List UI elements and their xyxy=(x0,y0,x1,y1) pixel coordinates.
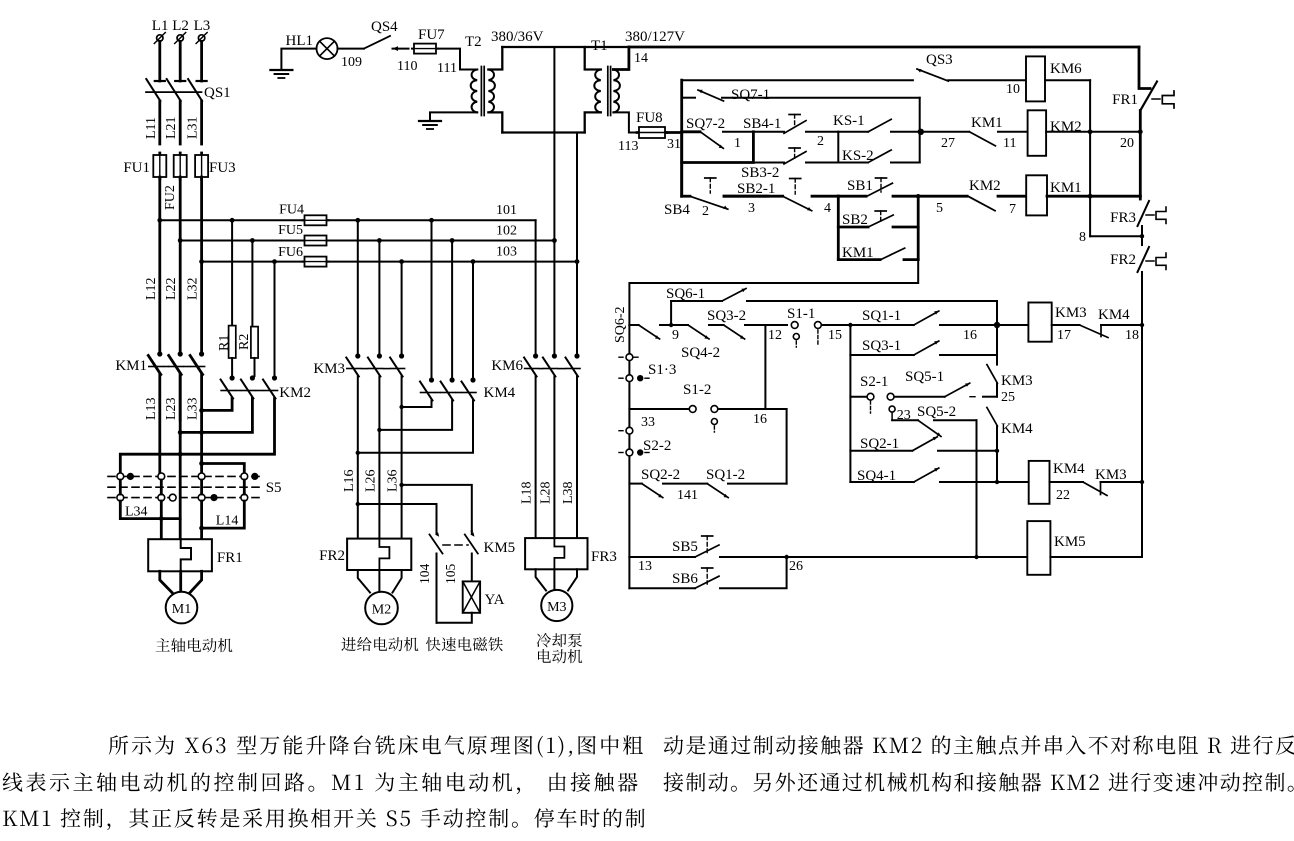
junction rail KM4 row xyxy=(1140,480,1144,484)
svg-text:KM3: KM3 xyxy=(1095,467,1127,483)
transformer T2 primary winding xyxy=(488,70,494,113)
wire S5 inter-row stubs xyxy=(120,480,244,494)
svg-text:20: 20 xyxy=(1120,136,1134,151)
svg-text:12: 12 xyxy=(768,328,782,343)
svg-text:15: 15 xyxy=(828,328,842,343)
overload contact FR2 xyxy=(1110,247,1166,325)
svg-text:HL1: HL1 xyxy=(286,33,314,49)
svg-text:KM3: KM3 xyxy=(313,361,345,377)
svg-text:FR1: FR1 xyxy=(1112,92,1138,108)
selector contact S1-1 xyxy=(787,306,850,347)
svg-text:SQ6-2: SQ6-2 xyxy=(613,306,628,343)
wire FR1 to M1 xyxy=(160,571,202,592)
selector contact S1-3 lower xyxy=(619,375,652,382)
svg-text:SB5: SB5 xyxy=(672,539,698,555)
wire phase tap x554 (T2 top to bus 102) xyxy=(553,47,555,241)
wire row M to SQ1-1 xyxy=(850,324,913,326)
wire SQ7-1 branch xyxy=(682,97,695,99)
wire KM2 coil to rail node 20 xyxy=(1046,132,1139,151)
contactor coil KM3 xyxy=(1028,303,1086,342)
limit switch SQ5-1 xyxy=(905,369,997,397)
wire L36 to KM5 right xyxy=(399,483,471,531)
selector contact S1-3 upper xyxy=(619,325,676,557)
wire L22 xyxy=(164,177,180,352)
pushbutton SB2 xyxy=(838,211,918,228)
thermal relay FR2 heater xyxy=(319,539,411,570)
switch QS1 xyxy=(146,79,231,101)
limit switch SQ7-2 xyxy=(682,116,754,151)
svg-text:S5: S5 xyxy=(266,480,282,496)
contactor KM4 main contacts xyxy=(420,377,516,401)
svg-text:SB6: SB6 xyxy=(672,571,698,587)
svg-text:L31: L31 xyxy=(186,116,201,139)
svg-text:380/127V: 380/127V xyxy=(625,29,685,45)
fuse FU8 xyxy=(636,110,667,138)
contactor coil KM6 xyxy=(1026,56,1082,101)
wire vertical 976 down to KM5 row xyxy=(976,420,978,557)
limit switch SQ1-2 xyxy=(706,467,787,498)
svg-text:103: 103 xyxy=(496,245,517,260)
wire 104 xyxy=(417,554,437,623)
wire feed tap 2 xyxy=(377,238,382,354)
wire right rail top xyxy=(1139,47,1150,89)
svg-text:FR3: FR3 xyxy=(591,549,617,565)
contactor KM1 main contacts xyxy=(115,351,204,374)
junction 554-102 xyxy=(552,238,557,243)
solenoid YA xyxy=(463,581,505,612)
svg-text:SQ4-2: SQ4-2 xyxy=(681,345,720,361)
wire L11 xyxy=(144,101,160,144)
svg-text:17: 17 xyxy=(1057,328,1071,343)
wire T2 primary bottom lead xyxy=(488,112,502,132)
svg-text:R1: R1 xyxy=(217,335,232,351)
svg-text:26: 26 xyxy=(789,559,803,574)
contactor contact KM4 interlock row M xyxy=(1052,307,1142,343)
wire T2 primary top lead xyxy=(488,47,502,70)
junction rail node20 xyxy=(1138,129,1143,134)
wire KM4 tap 2 xyxy=(450,238,455,378)
motor M1 xyxy=(166,592,198,624)
node 4 xyxy=(824,196,866,216)
svg-text:KM3: KM3 xyxy=(1001,373,1033,389)
svg-text:KM1: KM1 xyxy=(115,358,147,374)
svg-text:KM3: KM3 xyxy=(1055,305,1087,321)
relay contact KS-2 xyxy=(838,148,919,164)
wire T1 secondary top lead to control bus xyxy=(613,47,629,70)
svg-text:FU1: FU1 xyxy=(123,160,150,176)
svg-text:SB3-2: SB3-2 xyxy=(741,165,779,181)
pushbutton SB2-1 xyxy=(724,179,838,217)
lamp HL1 xyxy=(286,33,338,59)
svg-text:FU5: FU5 xyxy=(278,223,303,238)
wire FU8 to left rail xyxy=(666,131,682,134)
svg-text:L32: L32 xyxy=(186,277,201,300)
svg-text:L3: L3 xyxy=(194,18,211,34)
wire KM4 tap 1 xyxy=(429,218,434,378)
relay contact KS-1 xyxy=(833,113,969,132)
svg-text:KM4: KM4 xyxy=(484,385,516,401)
wire left rail to SB4 row xyxy=(680,163,683,197)
wire YA bottom loop xyxy=(437,613,472,623)
limit switch SQ1-1 xyxy=(862,308,1028,343)
svg-text:13: 13 xyxy=(638,559,652,574)
svg-text:KM6: KM6 xyxy=(1050,61,1082,77)
wire T2 secondary to ground xyxy=(430,112,477,120)
svg-text:M1: M1 xyxy=(172,602,191,617)
junction 1090-node20 xyxy=(1088,129,1093,134)
pushbutton SB4-1 xyxy=(743,115,838,150)
ground at T2 xyxy=(419,121,441,129)
overload contact FR3 xyxy=(1110,196,1166,245)
wire KM2 jog 1 xyxy=(199,399,232,413)
svg-text:R2: R2 xyxy=(237,334,252,350)
svg-text:KM4: KM4 xyxy=(1001,421,1033,437)
svg-text:FU6: FU6 xyxy=(278,245,303,260)
wire KM2 jog 3 long to S5 xyxy=(120,399,274,474)
svg-text:L28: L28 xyxy=(538,481,553,504)
svg-text:QS4: QS4 xyxy=(371,19,398,35)
svg-text:SQ3-1: SQ3-1 xyxy=(862,338,901,354)
svg-text:L38: L38 xyxy=(561,481,576,504)
junction L12-101 xyxy=(157,218,162,223)
contactor contact KM3 aux xyxy=(987,355,1033,405)
selector contact 33 xyxy=(619,415,655,434)
svg-text:L12: L12 xyxy=(144,277,159,300)
svg-text:FU7: FU7 xyxy=(418,27,445,43)
svg-text:22: 22 xyxy=(1056,488,1070,503)
svg-text:KM1: KM1 xyxy=(1050,180,1082,196)
contactor contact KM1 jog interlock xyxy=(838,245,918,261)
limit switch SQ7-1 xyxy=(698,87,920,103)
resistor R1 xyxy=(217,218,236,376)
wire L13 xyxy=(144,375,160,474)
svg-text:FU2: FU2 xyxy=(163,185,178,210)
transformer T1 primary winding xyxy=(594,70,600,113)
svg-text:16: 16 xyxy=(753,412,767,427)
wire KM2 third phase tap xyxy=(272,259,277,376)
switch QS4 xyxy=(338,19,399,70)
reversing switch S5 row 1 xyxy=(108,473,282,496)
node 103 bus wire with fuse FU6 xyxy=(202,245,577,267)
wire L33 branch to S5 right xyxy=(199,461,244,473)
svg-text:L34: L34 xyxy=(125,505,148,520)
wire node2 vertical xyxy=(837,132,839,163)
pushbutton SB6 xyxy=(629,557,786,588)
wire L36 xyxy=(386,377,402,539)
limit switch SQ4-1 xyxy=(850,468,1028,484)
junction rail row M xyxy=(1140,323,1144,327)
wire L33 xyxy=(186,375,202,474)
pushbutton SB5 xyxy=(629,536,1027,574)
contactor KM6 main contacts xyxy=(491,353,580,376)
svg-text:3: 3 xyxy=(748,201,755,216)
contactor KM2 main contacts xyxy=(221,375,311,401)
svg-text:105: 105 xyxy=(443,564,458,585)
supply terminal L3 xyxy=(194,18,211,44)
limit switch SQ6-2 xyxy=(629,325,688,343)
node 110 xyxy=(393,46,418,74)
wire T2 primary loop top edge xyxy=(502,46,629,48)
svg-text:7: 7 xyxy=(1009,202,1016,217)
svg-text:5: 5 xyxy=(936,201,943,216)
svg-text:FU3: FU3 xyxy=(209,160,236,176)
svg-text:T2: T2 xyxy=(465,34,482,50)
wire coolant drop 2 xyxy=(553,241,555,355)
svg-text:KM5: KM5 xyxy=(484,540,516,556)
svg-text:L22: L22 xyxy=(164,277,179,300)
contactor contact KM2 interlock xyxy=(968,178,1026,217)
contactor coil KM4 lower xyxy=(1029,461,1085,504)
svg-text:110: 110 xyxy=(397,59,417,74)
svg-text:101: 101 xyxy=(496,203,517,218)
contactor coil KM1 xyxy=(1026,175,1081,215)
wire L23 xyxy=(164,375,180,421)
svg-text:L23: L23 xyxy=(164,397,179,420)
wire L18 xyxy=(520,377,536,539)
svg-text:25: 25 xyxy=(1001,390,1015,405)
junction 1090-node7 xyxy=(1088,194,1093,199)
svg-text:33: 33 xyxy=(641,415,655,430)
wire T1 primary bottom lead xyxy=(585,112,601,132)
wire KM6 coil to vertical 1090 xyxy=(1045,79,1090,81)
svg-text:L14: L14 xyxy=(216,514,239,529)
junction 976-KM5row xyxy=(974,555,978,559)
switch QS3 xyxy=(917,52,1026,97)
svg-text:KM4: KM4 xyxy=(1098,307,1130,323)
svg-text:KM1: KM1 xyxy=(971,115,1003,131)
wire L14 route xyxy=(199,501,244,530)
caption main spindle motor xyxy=(156,638,233,652)
svg-text:FR2: FR2 xyxy=(1110,252,1136,268)
svg-text:SQ1-1: SQ1-1 xyxy=(862,308,901,324)
svg-text:SQ1-2: SQ1-2 xyxy=(706,467,745,483)
svg-text:16: 16 xyxy=(963,328,977,343)
thermal relay FR3 heater xyxy=(525,538,617,569)
svg-text:L2: L2 xyxy=(172,18,189,34)
svg-text:141: 141 xyxy=(677,488,698,503)
svg-text:SQ5-1: SQ5-1 xyxy=(905,369,944,385)
svg-text:SQ5-2: SQ5-2 xyxy=(917,404,956,420)
svg-text:L13: L13 xyxy=(144,397,159,420)
svg-text:FR1: FR1 xyxy=(217,550,243,566)
transformer T1 core xyxy=(608,67,611,116)
svg-text:1: 1 xyxy=(734,136,741,151)
svg-text:102: 102 xyxy=(496,224,517,239)
ground at HL1 xyxy=(270,70,292,78)
svg-text:SQ2-1: SQ2-1 xyxy=(860,436,899,452)
svg-text:FR2: FR2 xyxy=(319,548,345,564)
limit switch SQ2-1 xyxy=(850,436,999,482)
selector switch S1-2 row xyxy=(629,382,786,432)
svg-text:10: 10 xyxy=(1006,82,1020,97)
wire vertical 786 xyxy=(786,409,788,484)
svg-text:380/36V: 380/36V xyxy=(491,29,544,45)
fuse FU7 xyxy=(412,27,445,54)
wire QS3 branch xyxy=(682,79,913,81)
limit switch SQ6-1 bypass xyxy=(666,286,997,327)
svg-text:14: 14 xyxy=(634,51,648,66)
caption feed motor xyxy=(341,637,418,651)
wire FR2 to M2 xyxy=(358,570,402,593)
wire S5 to FR1 left xyxy=(160,501,163,539)
junction rail node 8 xyxy=(1140,234,1144,238)
svg-text:27: 27 xyxy=(941,136,955,151)
wire coolant drop 1 (bus101 end) xyxy=(535,220,537,354)
junction row5-918 xyxy=(916,194,920,198)
svg-text:L33: L33 xyxy=(186,397,201,420)
svg-text:SB4: SB4 xyxy=(664,202,690,218)
svg-text:SQ7-2: SQ7-2 xyxy=(686,116,725,132)
node 102 bus wire with fuse FU5 xyxy=(180,223,554,246)
svg-text:T1: T1 xyxy=(591,38,608,54)
wire T1 secondary bottom lead xyxy=(613,112,638,132)
fuse FU1 xyxy=(123,153,166,179)
paragraph right column xyxy=(664,735,1294,755)
wire T1 primary top lead xyxy=(585,47,601,70)
selector contact SQ5-2 row xyxy=(892,404,976,437)
svg-text:QS1: QS1 xyxy=(204,85,231,101)
supply terminal L1 xyxy=(152,18,169,44)
svg-text:KM6: KM6 xyxy=(491,358,523,374)
paragraph left column xyxy=(109,735,643,757)
contactor coil KM2 xyxy=(1028,110,1082,156)
wire HL1 to ground xyxy=(281,49,316,69)
label T2 380/36V xyxy=(465,29,544,50)
wire L23 through to FR1 xyxy=(179,375,182,540)
reversing switch S5 row 2 xyxy=(108,494,262,501)
svg-text:104: 104 xyxy=(417,564,432,585)
wire SQ7-2 bypass box xyxy=(682,132,754,163)
contactor contact KM1 (seal-in) xyxy=(969,115,1027,151)
limit switch SQ3-2 xyxy=(707,308,787,343)
wire L38 xyxy=(561,377,577,539)
wire vertical 1090 (KM6 to node 8) xyxy=(1089,80,1091,236)
wire vertical node4 to KM1-aux row xyxy=(837,196,840,259)
wire KM4 tap 3 xyxy=(471,259,476,378)
contactor contact KM3 interlock lower xyxy=(1050,467,1143,503)
wire L2 drop to QS1 xyxy=(179,41,182,81)
contactor contact KM4 aux xyxy=(987,408,1033,451)
svg-text:L36: L36 xyxy=(386,469,401,492)
wire FR3 to M3 xyxy=(536,569,577,590)
wire vertical 765 node12 to S1-2 row xyxy=(764,325,766,409)
wire L16 xyxy=(342,377,358,539)
wire L34 route xyxy=(120,501,180,521)
junction L32-103 xyxy=(199,259,204,264)
wire L21 xyxy=(164,101,180,144)
limit switch SQ2-2 xyxy=(629,467,707,503)
svg-text:YA: YA xyxy=(485,592,505,608)
svg-text:S1-1: S1-1 xyxy=(787,306,815,322)
motor M2 xyxy=(365,592,398,625)
wire vertical 919 upper xyxy=(919,98,921,163)
limit switch SQ3-1 xyxy=(850,325,997,355)
svg-text:S2-1: S2-1 xyxy=(860,374,888,390)
wire feed to lower section xyxy=(629,260,918,325)
wire L31 xyxy=(186,101,202,144)
contactor coil KM5 xyxy=(1027,521,1085,575)
wire left rail upper xyxy=(680,80,683,196)
wire L26 xyxy=(363,377,379,539)
svg-text:109: 109 xyxy=(341,55,362,70)
wire L1 drop to QS1 xyxy=(158,41,161,81)
caption rapid traverse electromagnet xyxy=(426,637,503,651)
wire right rail FR1 to KM1 row xyxy=(1139,111,1142,197)
fuse FU2 xyxy=(163,153,187,210)
svg-text:111: 111 xyxy=(437,61,457,76)
wire KM2 jog 2 xyxy=(178,399,253,435)
wire coolant drop 3 xyxy=(576,262,578,354)
wire S5 to FR1 right xyxy=(200,501,203,539)
svg-text:FU4: FU4 xyxy=(279,203,304,218)
transformer T1 secondary winding xyxy=(613,70,619,113)
svg-text:L21: L21 xyxy=(164,116,179,139)
wire phase tap x577 (loop bottom to bus 103) xyxy=(576,133,578,262)
wire right rail lower xyxy=(1141,325,1143,557)
wire feed tap 3 xyxy=(399,259,404,354)
wire KM5 coil to rail xyxy=(1050,556,1142,558)
junction L22-102 xyxy=(178,238,183,243)
svg-text:113: 113 xyxy=(618,139,638,154)
svg-text:L18: L18 xyxy=(520,481,535,504)
svg-text:FU8: FU8 xyxy=(636,110,663,126)
pushbutton SB4 xyxy=(664,178,768,219)
limit switch SQ4-2 xyxy=(681,325,724,361)
wire control top bus xyxy=(629,46,1139,49)
wire vertical 850 row M to KM4 row xyxy=(848,323,852,482)
svg-text:11: 11 xyxy=(1003,136,1016,151)
wire L28 xyxy=(538,377,554,539)
svg-text:2: 2 xyxy=(702,204,709,219)
svg-text:KM4: KM4 xyxy=(1053,461,1085,477)
svg-text:18: 18 xyxy=(1125,328,1139,343)
svg-text:SB1: SB1 xyxy=(847,178,873,194)
svg-text:8: 8 xyxy=(1079,230,1086,245)
wire KM1 coil to rail xyxy=(1047,195,1140,198)
selector contact S2-2 xyxy=(619,438,671,456)
wire vertical right 918 xyxy=(917,196,920,259)
wire KM4 jog 3 xyxy=(356,401,473,455)
wire node 8 to FR3/FR2 rail xyxy=(1079,230,1142,245)
svg-text:M3: M3 xyxy=(547,600,566,615)
pushbutton SB1 xyxy=(847,178,967,216)
svg-text:SQ7-1: SQ7-1 xyxy=(731,87,770,103)
svg-text:QS3: QS3 xyxy=(926,52,953,68)
wire L32 xyxy=(186,177,202,352)
svg-text:L11: L11 xyxy=(144,117,159,139)
svg-text:KM2: KM2 xyxy=(279,385,311,401)
svg-text:L26: L26 xyxy=(363,469,378,492)
wire feed tap 1 xyxy=(355,218,360,354)
wire L16 to KM5 left xyxy=(356,502,437,531)
wire 105 xyxy=(443,554,472,585)
fuse FU3 xyxy=(195,153,236,179)
junction node 16 xyxy=(994,322,1000,328)
overload contact FR1 xyxy=(1112,82,1174,111)
node 101 bus wire with fuse FU4 xyxy=(160,203,536,226)
svg-text:S1-2: S1-2 xyxy=(683,382,711,398)
wire KM4 jog 2 xyxy=(377,401,452,433)
svg-text:S2-2: S2-2 xyxy=(643,438,671,454)
caption coolant pump motor xyxy=(537,633,582,647)
svg-text:SB4-1: SB4-1 xyxy=(743,116,781,132)
pushbutton SB3-2 xyxy=(741,148,838,181)
supply terminal L2 xyxy=(172,18,189,44)
svg-text:31: 31 xyxy=(667,137,681,152)
svg-text:4: 4 xyxy=(824,201,831,216)
junction SB6-26 xyxy=(784,555,788,559)
svg-text:SQ6-1: SQ6-1 xyxy=(666,286,705,302)
